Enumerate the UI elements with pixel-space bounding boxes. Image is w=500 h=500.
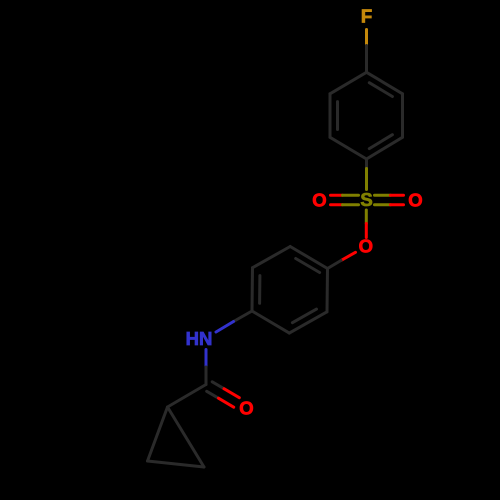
svg-text:O: O [239, 398, 253, 419]
svg-text:HN: HN [186, 328, 213, 349]
svg-text:O: O [312, 190, 326, 211]
svg-text:O: O [359, 236, 373, 257]
svg-text:S: S [360, 189, 372, 210]
svg-text:O: O [408, 190, 422, 211]
svg-text:F: F [361, 6, 372, 27]
